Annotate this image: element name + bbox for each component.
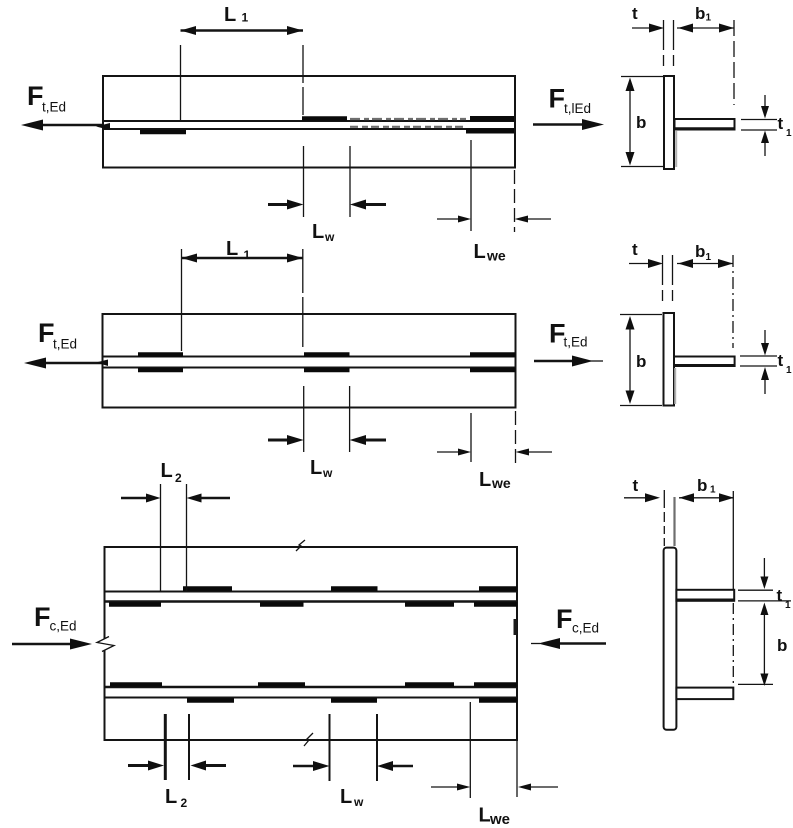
- b dimension extension bottom: [620, 405, 662, 407]
- dimension L1 line: [182, 257, 303, 260]
- dimension Lw bottom arrow left: [293, 765, 315, 768]
- weld pair 1 lower: [138, 368, 183, 373]
- dimension L2 bottom arrow right: [204, 764, 226, 767]
- b1 dimension line: [677, 263, 733, 265]
- dimension Lwe extension left: [470, 140, 472, 231]
- force arrow left: [42, 362, 103, 365]
- joint line 4: [105, 697, 518, 699]
- svg-text:t,Ed: t,Ed: [53, 337, 77, 352]
- t extension line right (grey): [673, 497, 675, 546]
- weld pair 3 lower: [470, 368, 516, 373]
- t extension line left: [662, 255, 664, 305]
- force arrow right: [534, 360, 576, 363]
- dimension Lwe arrow left: [437, 218, 460, 220]
- svg-text:w: w: [322, 466, 333, 480]
- t1 extension lines: [738, 589, 773, 591]
- plate outline (middle lap joint): [103, 314, 516, 408]
- svg-text:t: t: [777, 586, 783, 605]
- t dimension arrow: [624, 497, 646, 499]
- svg-text:1: 1: [706, 13, 712, 24]
- svg-text:1: 1: [244, 248, 251, 262]
- weld dash right end upper: [470, 116, 514, 122]
- svg-text:L: L: [165, 786, 177, 808]
- weld dashes below line2: [109, 602, 161, 607]
- dimension Lwe extension left: [470, 413, 472, 462]
- joint line 1: [105, 591, 518, 593]
- b dimension extension bottom: [621, 166, 663, 168]
- b1 dimension line: [677, 27, 734, 29]
- t extension line right: [673, 20, 675, 68]
- web plate (horizontal): [675, 119, 735, 130]
- svg-text:F: F: [556, 604, 573, 634]
- svg-text:b: b: [697, 476, 707, 495]
- svg-text:L: L: [226, 238, 238, 260]
- t1 arrow below: [764, 141, 766, 156]
- plate shadow: [675, 131, 677, 167]
- svg-text:1: 1: [786, 128, 792, 139]
- joint line 2: [105, 600, 518, 603]
- svg-text:b: b: [695, 242, 705, 261]
- dimension L1 extension left: [181, 249, 183, 351]
- force arrow right: [533, 123, 586, 126]
- t extension line left: [663, 20, 665, 68]
- svg-text:1: 1: [710, 485, 716, 496]
- dimension L1 line: [181, 29, 304, 32]
- svg-text:1: 1: [786, 365, 792, 376]
- joint line lower: [103, 128, 515, 130]
- svg-text:2: 2: [181, 796, 188, 810]
- svg-text:1: 1: [706, 252, 712, 263]
- b extension line bottom: [738, 683, 773, 685]
- svg-text:b: b: [695, 4, 705, 23]
- weld pair 2 upper: [304, 352, 350, 357]
- svg-text:b: b: [636, 352, 646, 371]
- force arrow left: [40, 124, 103, 127]
- dimension L2 top arrow left: [121, 497, 147, 500]
- weld dash right end lower: [466, 129, 514, 134]
- svg-text:c,Ed: c,Ed: [572, 621, 599, 636]
- dimension Lwe bottom extension left: [469, 702, 471, 798]
- svg-text:w: w: [353, 795, 364, 809]
- svg-text:2: 2: [175, 471, 182, 485]
- flange plate (vertical): [664, 76, 674, 169]
- dimension Lw arrow left: [268, 439, 289, 442]
- dimension Lw extension left: [303, 386, 305, 452]
- svg-text:F: F: [549, 84, 566, 114]
- t1 arrow above: [763, 558, 765, 580]
- dimension Lwe arrow left: [437, 451, 460, 453]
- t1 extension lines: [740, 355, 777, 357]
- svg-text:t,Ed: t,Ed: [42, 100, 66, 115]
- plate shadow: [674, 368, 676, 404]
- dimension L2 top arrow right: [199, 497, 230, 500]
- dimension L1 extension right: [302, 249, 304, 350]
- svg-text:t,lEd: t,lEd: [564, 101, 591, 116]
- break mark left edge: [102, 639, 107, 651]
- t extension line left: [663, 490, 665, 546]
- svg-text:t: t: [778, 351, 784, 370]
- dimension Lw extension left: [303, 146, 305, 217]
- dimension Lw arrow right: [364, 439, 386, 442]
- flange plate (vertical): [664, 313, 675, 406]
- dimension Lw extension right: [349, 146, 351, 217]
- weld pair 2 lower: [304, 368, 350, 373]
- web plate (horizontal): [674, 357, 735, 367]
- b dimension extension top: [621, 76, 663, 78]
- b dimension line: [629, 86, 631, 157]
- weld dashes above line1: [183, 586, 232, 591]
- svg-text:1: 1: [785, 600, 791, 611]
- dimension L2 bottom extension right: [188, 714, 190, 780]
- force arrow left (compression): [12, 643, 74, 646]
- dimension Lwe bottom arrow right: [524, 786, 558, 788]
- svg-text:t: t: [778, 114, 784, 133]
- t1 arrow below: [764, 378, 766, 394]
- break mark bottom edge: [304, 733, 313, 746]
- b dimension extension top: [620, 314, 662, 316]
- dimension Lw arrow left: [268, 203, 289, 206]
- dimension Lw bottom arrow right: [391, 765, 413, 768]
- web plate bottom (horizontal): [676, 688, 733, 700]
- dimension Lw arrow right: [364, 203, 386, 206]
- svg-text:c,Ed: c,Ed: [50, 619, 77, 634]
- dimension L2 top extension left: [160, 484, 162, 591]
- svg-text:L: L: [340, 786, 352, 808]
- dimension Lw bottom extension right: [376, 714, 378, 781]
- b dimension line: [629, 324, 631, 396]
- b dimension line: [763, 612, 765, 676]
- t1 arrow above: [764, 330, 766, 346]
- svg-text:we: we: [486, 248, 506, 264]
- dimension L1 extension line left: [180, 45, 182, 120]
- dimension Lwe bottom arrow left: [431, 786, 458, 788]
- web plate top bottom edge thick: [676, 599, 734, 602]
- b1 extension line right (solid then dash-dot): [732, 491, 734, 589]
- dimension Lwe extension right: [514, 170, 516, 232]
- svg-text:b: b: [636, 113, 646, 132]
- svg-text:L: L: [310, 457, 322, 479]
- svg-text:w: w: [324, 230, 335, 244]
- faint weld marks upper line: [350, 118, 466, 120]
- dimension Lwe extension right: [515, 411, 517, 463]
- web plate bottom edge thick: [674, 364, 735, 367]
- svg-text:t,Ed: t,Ed: [564, 335, 588, 350]
- break mark top edge: [296, 540, 305, 551]
- plate outline (top lap joint): [103, 76, 515, 168]
- joint line 3: [105, 686, 518, 689]
- svg-text:F: F: [34, 602, 51, 632]
- dimension L2 top extension right: [186, 484, 188, 591]
- svg-text:1: 1: [242, 11, 249, 25]
- dimension Lwe arrow right: [528, 451, 552, 453]
- dimension Lw extension right: [349, 386, 351, 452]
- joint line upper: [103, 120, 515, 122]
- svg-text:b: b: [777, 636, 787, 655]
- weld dashes above line3: [110, 682, 162, 687]
- t dimension arrow: [632, 27, 650, 29]
- weld dashes below line4: [187, 698, 234, 703]
- dimension L1 extension line right: [302, 45, 304, 115]
- t1 arrow below / b arrow top (shared): [760, 603, 768, 616]
- svg-text:t: t: [632, 240, 638, 259]
- faint weld marks lower line: [350, 126, 466, 128]
- svg-text:t: t: [632, 4, 638, 23]
- dimension Lwe bottom extension right: [516, 740, 518, 797]
- weld pair 1 upper: [138, 352, 183, 357]
- b1 dimension line: [679, 497, 733, 499]
- b1 extension line right (dash-dot): [732, 255, 734, 348]
- t1 arrow above: [764, 95, 766, 110]
- t dimension arrow: [629, 263, 649, 265]
- web plate bottom edge thick: [675, 127, 735, 130]
- weld dash upper-middle: [302, 116, 347, 121]
- svg-text:L: L: [479, 469, 491, 491]
- dimension Lw bottom extension left: [329, 714, 331, 781]
- svg-text:we: we: [491, 475, 511, 491]
- web plate top (horizontal): [676, 590, 734, 601]
- dimension Lwe arrow right: [527, 218, 551, 220]
- svg-text:L: L: [474, 241, 486, 263]
- dimension L2 bottom extension left (thick): [164, 714, 167, 780]
- t1 extension lines: [741, 119, 777, 121]
- joint line upper: [103, 356, 516, 358]
- t extension line right: [672, 255, 674, 305]
- svg-text:t: t: [633, 476, 639, 495]
- flange plate (vertical, rounded ends): [664, 548, 677, 730]
- joint line lower: [103, 367, 516, 369]
- svg-text:L: L: [224, 4, 236, 26]
- plate outline (bottom, compression): [105, 547, 518, 740]
- svg-text:we: we: [489, 811, 510, 828]
- svg-text:L: L: [312, 221, 324, 243]
- svg-text:L: L: [479, 805, 491, 827]
- weld dash lower-left: [140, 130, 186, 135]
- force arrow right (compression): [546, 642, 606, 645]
- dimension L2 bottom arrow left: [128, 764, 150, 767]
- weld pair 3 upper: [470, 352, 516, 357]
- svg-text:L: L: [161, 460, 173, 482]
- b1 extension line right: [733, 20, 735, 105]
